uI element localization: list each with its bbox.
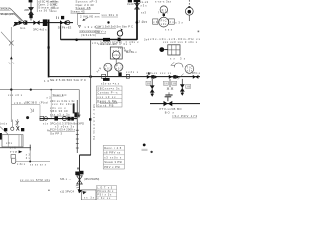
svg-text:xxx 3x x0x: xxx 3x x0x: [52, 102, 72, 106]
note box top edge: [77, 13, 100, 15]
instrument circle FIC: [159, 17, 169, 27]
svg-text:PCxxx 3x x: PCxxx 3x x: [97, 190, 114, 193]
U-trap symbol: [11, 159, 15, 164]
fitting box at x40 on condensate pipe: [40, 116, 44, 120]
strainer marks left: [31, 108, 34, 112]
leader arrow from note to pipe: [83, 18, 88, 21]
junction dot on x137: [136, 21, 139, 24]
svg-text:x3x: x3x: [175, 21, 183, 25]
trap valve dark hourglass on drop x152: [150, 85, 155, 92]
note box left edge: [76, 14, 78, 25]
drop leg x40: [39, 105, 41, 117]
side box right of FIC: [169, 19, 175, 24]
valve V1 gate valve on header: [19, 20, 28, 25]
dark tee fitting x119: [119, 72, 122, 76]
leader diagonal bottom-left: [0, 127, 8, 135]
fitting box on sub-header right: [126, 74, 129, 78]
svg-text:xxx 30x C: xxx 30x C: [102, 13, 119, 17]
steam sub-header pipe y76.6: [49, 76, 200, 78]
valve V5 pair on sub-header x169: [169, 75, 176, 79]
main vertical steam pipe x48.6 (thick): [48, 20, 50, 78]
junction bulge on thick pipe: [48, 46, 50, 48]
svg-text:x-xx-x 3xx: x-xx-x 3xx: [155, 0, 172, 4]
drain box C: [81, 190, 96, 200]
arrowhead bottom of drop x182: [181, 93, 185, 96]
tag box 36B left of drop: [146, 81, 151, 85]
dark fitting under sub-header: [103, 78, 110, 81]
svg-text:x3x xx 30 x 3x x: x3x xx 30 x 3x x: [98, 42, 132, 46]
PRV valve bowtie x168: [164, 101, 173, 106]
svg-text:Denc. i 4.5: Denc. i 4.5: [104, 146, 122, 150]
svg-text:xPC-x: xPC-x: [192, 72, 200, 75]
valve cluster on blow-down x79.5 y171: [75, 172, 79, 176]
wire: main steam header pipe y22.5: [14, 22, 73, 24]
PRV actuator stem: [167, 97, 169, 101]
fitting circle after V1: [23, 21, 27, 25]
svg-text:xxx x3 x: xxx x3 x: [8, 93, 23, 97]
svg-text:xxx x3 x 3x: xxx x3 x 3x: [50, 112, 70, 116]
svg-text:Mo-BL x: Mo-BL x: [126, 50, 137, 54]
riser pipe x31: [30, 0, 32, 21]
svg-text:(3Px3.5GPM): (3Px3.5GPM): [84, 177, 99, 181]
valve V3 gate valve second cluster: [60, 20, 66, 25]
svg-text:xxx xx3 xxx 3 x0x x: xxx xx3 xxx 3 x0x x: [163, 40, 198, 44]
blob top of riser: [29, 0, 33, 2]
valve body on x77.3 line: [74, 112, 78, 117]
junction dot x30.2 y161: [29, 161, 31, 163]
drop leg x170: [169, 79, 171, 87]
svg-text:Ga PP 3: Ga PP 3: [50, 131, 63, 135]
PRV pipe right y103.6: [150, 103, 200, 105]
svg-text:xx xx xx x: xx xx xx x: [30, 163, 47, 166]
valve CV3 vertical hourglass on x137: [135, 3, 140, 9]
arrow at left end of pipe: [13, 22, 19, 27]
link tick between circles: [163, 13, 165, 17]
svg-text:(m)x: (m)x: [0, 121, 8, 125]
note box border x37.3: [36, 0, 38, 12]
nozzle blob B on tank: [21, 128, 24, 131]
small marks under arrow: [9, 62, 14, 64]
fitting blob on y118.6: [54, 116, 58, 120]
svg-text:xxx-x 3x: xxx-x 3x: [100, 100, 118, 104]
tag box S6B: [163, 81, 168, 85]
drop leg from header to bypass pipe: [60, 25, 62, 40]
svg-text:Steam 3 PSI: Steam 3 PSI: [104, 160, 122, 164]
junction dot x11.3/y89.6: [10, 88, 12, 90]
blobs at top of x137: [128, 0, 132, 2]
valve V2 gate valve on header: [33, 20, 39, 25]
note box left edge x51: [50, 90, 52, 119]
T-end tick x30.2: [29, 145, 31, 151]
svg-text:x 3x xx: x 3x xx: [97, 197, 111, 200]
label A-row above bypass right: [78, 25, 80, 27]
svg-text:3PC-4x3 x: 3PC-4x3 x: [33, 28, 47, 32]
svg-text:SBC 36 G: SBC 36 G: [25, 100, 37, 104]
svg-text:3x40: 3x40: [127, 2, 134, 6]
svg-text:xx3x x: xx3x x: [126, 71, 139, 74]
svg-text:26B: 26B: [24, 8, 29, 12]
svg-text:x3: x3: [47, 97, 52, 100]
svg-text:PTV-xxVB BO: PTV-xxVB BO: [160, 107, 182, 111]
drop leg x182.3: [181, 79, 183, 93]
svg-text:x3x: x3x: [92, 42, 99, 45]
svg-text:Gprd PB: Gprd PB: [97, 103, 113, 107]
vent line y161.6: [16, 161, 50, 163]
leader diagonal into x11 line: [1, 32, 11, 43]
fitting box on sub-header left: [102, 74, 106, 78]
instrument circle FI top-right: [160, 6, 167, 13]
nozzle blob A on tank: [4, 128, 7, 131]
spec table A right-middle: [103, 145, 124, 169]
junction dot x90.6 on sub-header: [89, 75, 92, 78]
dark blob right of TYP: [19, 150, 23, 153]
drop leg x79.3 from condensate header: [78, 90, 80, 117]
vertical main pipe x137 (thick): [136, 0, 138, 40]
junction dot x90 y119: [89, 118, 91, 120]
flash tank body: [2, 135, 23, 147]
svg-text:x3x: x3x: [113, 53, 119, 57]
svg-text:(xxx): (xxx): [158, 11, 168, 14]
instrument square PDI: [110, 47, 122, 59]
tag box 36B0: [172, 81, 177, 85]
condensate header y89.6: [0, 89, 79, 91]
svg-text:SB-x --: SB-x --: [60, 177, 71, 181]
small marks under x170: [167, 87, 169, 89]
svg-text:x45: x45: [142, 21, 148, 24]
svg-text:PRV x PSI: PRV x PSI: [104, 165, 120, 169]
svg-text:x 3x x: x 3x x: [17, 163, 26, 166]
svg-text:xx 3x: xx 3x: [84, 196, 95, 199]
svg-text:2 VALVE xxx: 2 VALVE xxx: [80, 14, 100, 18]
junction dot x30.6/y89.6: [30, 89, 32, 91]
svg-text:xxxx: xxxx: [51, 10, 58, 13]
svg-text:PCV-3.03.4 2009 x: PCV-3.03.4 2009 x: [50, 128, 76, 132]
svg-text:xx3: xx3: [141, 11, 147, 15]
svg-text:SBC V 3.0.0 Stm PH: SBC V 3.0.0 Stm PH: [92, 104, 96, 140]
instrument circle PI2 right: [115, 63, 123, 71]
ticks on x77.3: [76, 129, 79, 131]
steam trap droplet symbol: [117, 31, 122, 36]
svg-text:x(x: x(x: [43, 122, 49, 125]
small angle mark: [171, 62, 175, 65]
stem below PI: [188, 15, 190, 21]
svg-text:3x: 3x: [169, 21, 174, 24]
arrowhead bottom of drop x152: [150, 94, 154, 97]
instrument circle PI with solid center: [185, 7, 193, 15]
svg-text:30 Pk +E3: 30 Pk +E3: [58, 26, 72, 30]
tick marks above pipe: [55, 16, 57, 19]
svg-text:x3 xx0x x: x3 xx0x x: [104, 155, 122, 159]
flow arrow on x11 line: [10, 56, 13, 59]
actuator stem blob above V3: [61, 16, 64, 19]
svg-text:3B: 3B: [147, 82, 151, 85]
junction dot x146 y146: [143, 144, 146, 147]
instrument circle TI left: [104, 63, 112, 71]
stems above tank: [11, 120, 13, 128]
drop x30.2 from y150: [29, 151, 31, 162]
svg-text:SBCxxx=x 3x: SBCxxx=x 3x: [97, 87, 120, 91]
faint mark x48 y190: [48, 190, 50, 191]
svg-text:(3/4x3/4): (3/4x3/4): [81, 33, 96, 37]
valve blobs on y118.6: [67, 117, 70, 121]
circle inside PDI square: [112, 51, 120, 59]
svg-text:=SJ PRV 173: =SJ PRV 173: [172, 114, 198, 118]
junction dot x153 y153: [142, 149, 148, 151]
tag box right of x182 drop: [186, 84, 191, 88]
svg-text:x3: x3: [153, 21, 158, 24]
svg-text:GxL: GxL: [20, 26, 26, 30]
svg-text:Steam E.C: Steam E.C: [53, 93, 67, 97]
svg-text:TYP: TYP: [10, 150, 17, 154]
svg-text:x11 3PVC4: x11 3PVC4: [60, 189, 75, 193]
bypass pipe y39.8: [61, 39, 137, 41]
svg-text:xxx: xxx: [165, 29, 173, 32]
junction dot on bypass: [75, 39, 78, 42]
svg-text:xxx x3 xx: xxx x3 xx: [97, 95, 116, 99]
pump dot and exchanger box top right: [159, 47, 164, 52]
control valve hourglass on blow-down: [77, 176, 83, 184]
svg-text:xPC+xx: xPC+xx: [146, 71, 158, 75]
small box below TYP: [11, 155, 16, 159]
control valve CV1 (vertical hourglass) on riser: [29, 7, 34, 14]
condensate return line y104.6 left: [11, 104, 40, 106]
arrow end of x79.3 leg: [78, 115, 81, 118]
valve X mark: [16, 126, 19, 131]
dashed signal line top: [188, 0, 190, 7]
svg-text:x03: x03: [105, 68, 111, 71]
dark bar left edge: [0, 133, 2, 140]
svg-text:C.W 1.5x0.5x0.5m Stm P C: C.W 1.5x0.5x0.5m Stm P C: [96, 25, 134, 29]
svg-text:L.O.T. x 3: L.O.T. x 3: [97, 186, 113, 189]
svg-text:xx-x3: xx-x3: [140, 0, 149, 4]
svg-text:xx.xx.xx STM x0x: xx.xx.xx STM x0x: [20, 178, 51, 182]
svg-text:Contau P--x: Contau P--x: [97, 91, 118, 95]
svg-text:x3x: x3x: [6, 142, 13, 145]
X mark at junction: [9, 41, 14, 46]
tick under droplet: [118, 38, 121, 42]
svg-text:xxx xx: xxx xx: [160, 72, 172, 75]
leader diagonal 2: [13, 13, 21, 21]
small mark far right: [198, 31, 200, 33]
condensate pipe y118.6: [40, 118, 78, 120]
svg-text:1/2x1/2x1/2 xx: 1/2x1/2x1/2 xx: [79, 29, 100, 33]
leader diagonal 1: [10, 8, 23, 21]
control valve CV2 with actuator at x45: [43, 19, 48, 26]
trap assembly blob on bypass: [103, 38, 110, 41]
svg-text:x30-x: x30-x: [14, 101, 26, 105]
svg-text:3B: 3B: [172, 82, 176, 85]
svg-text:x03: x03: [116, 67, 122, 70]
drop leg x152.2: [151, 79, 153, 94]
sight glass circle: [11, 127, 14, 130]
svg-text:x3x: x3x: [141, 3, 148, 7]
vertical line x77.3: [76, 100, 78, 153]
svg-text:PSI x 3x: PSI x 3x: [97, 194, 112, 197]
stem below PDI square: [115, 59, 117, 63]
svg-text:x3x-xx =x.x: x3x-xx =x.x: [101, 82, 120, 86]
svg-text:3.04.20-L5A: 3.04.20-L5A: [0, 7, 11, 11]
valve V6 on sub-header x193: [193, 75, 199, 79]
ground/tundish symbol below x169: [168, 92, 170, 95]
vertical line x90.6 long: [90, 40, 92, 155]
svg-text:xxx: xxx: [113, 49, 120, 52]
side box left of FIC: [153, 19, 158, 24]
condensate line left x11.3: [10, 27, 12, 122]
control valve actuator bar x73.5: [73, 103, 75, 113]
spec table B bottom-middle: [96, 186, 116, 200]
fitting circle after V3: [66, 21, 70, 25]
svg-text:NE # 5.00.500 Stm P C: NE # 5.00.500 Stm P C: [50, 78, 86, 82]
fitting circle on y118.6: [62, 117, 66, 121]
svg-text:SBC4 (20%) P6D: SBC4 (20%) P6D: [0, 12, 15, 16]
svg-text:(P)xd: (P)xd: [40, 100, 49, 104]
leader from TIC to pipe: [178, 74, 184, 80]
junction dot x108.5: [107, 21, 109, 23]
trap valve dark hourglass on drop x182: [180, 84, 185, 91]
actuator block under CV1: [29, 15, 32, 19]
svg-text:x8 PRV xx: x8 PRV xx: [104, 151, 121, 155]
arrowhead into drain box: [78, 189, 83, 193]
valve V4 pair on sub-header x147: [147, 75, 154, 79]
svg-text:x3x: x3x: [161, 22, 167, 26]
svg-text:x3x: x3x: [187, 69, 193, 72]
blow-down vertical pipe x79.5: [79, 155, 81, 190]
dark tick on y73.5 right of table row: [148, 73, 150, 75]
TIC circle right above pipe: [185, 65, 194, 74]
cloud arc left of TIC: [174, 63, 183, 67]
svg-text:3B: 3B: [186, 86, 190, 89]
svg-text:10: 10: [44, 79, 50, 83]
wavy marks below hourglass: [76, 185, 79, 188]
stems from circles to pipe: [107, 71, 109, 76]
tick above PI: [188, 6, 190, 8]
tank outlet line y147.6: [0, 147, 31, 149]
svg-text:3x4: 3x4: [144, 38, 150, 41]
elbow from x90.6 to x79.5 at y155: [79, 154, 91, 156]
